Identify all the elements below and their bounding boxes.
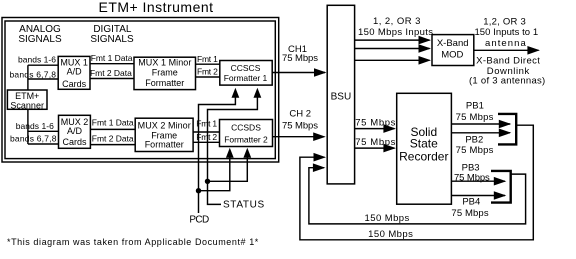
wire scanner bottom vertical [27, 109, 29, 144]
wire PB3 [451, 180, 505, 182]
svg-text:1, 2, OR 3: 1, 2, OR 3 [373, 16, 421, 27]
arrowhead up STATUS into formatter 1 [254, 88, 262, 98]
arrowhead return A into BSU [313, 163, 326, 172]
svg-text:bands 6,7,8: bands 6,7,8 [10, 134, 57, 144]
wire STATUS net: stem under formatter1 arrow2, run left, down [208, 92, 258, 204]
arrowhead PB1 [499, 120, 512, 129]
svg-text:150 Mbps: 150 Mbps [368, 229, 413, 240]
svg-text:PB4: PB4 [462, 196, 480, 207]
svg-text:CH 2: CH 2 [289, 108, 311, 119]
arrowhead up PCD into formatter 2 [226, 148, 234, 158]
wire PCD branch to formatter2 arrow [199, 152, 230, 191]
svg-text:Fmt 1 Data: Fmt 1 Data [91, 53, 133, 63]
svg-text:Frame: Frame [152, 68, 178, 78]
svg-text:Formatter: Formatter [145, 78, 184, 88]
svg-text:MUX 2 Minor: MUX 2 Minor [138, 120, 191, 130]
wire Fmt 1 Data (upper) [90, 63, 134, 65]
svg-text:A/D: A/D [67, 126, 83, 136]
svg-text:75 Mbps: 75 Mbps [355, 137, 395, 148]
wire X-Band MOD output [474, 49, 539, 51]
svg-text:MUX 1 Minor: MUX 1 Minor [138, 58, 191, 68]
box X-Band MOD [432, 35, 474, 66]
wire bands 6,7,8 (lower) [28, 143, 59, 145]
wire STATUS branch to formatter2 arrow2 [208, 152, 248, 181]
junction dot STATUS [205, 179, 210, 184]
svg-text:Formatter 1: Formatter 1 [224, 73, 268, 83]
svg-text:75 Mbps: 75 Mbps [454, 172, 490, 183]
arrowhead return B into BSU [314, 153, 327, 162]
wire 150 Mbps return loop B (PB1/PB2 to BSU) [300, 125, 533, 240]
junction dot PCD [196, 188, 201, 193]
wire CH1 75 Mbps [272, 72, 325, 74]
svg-text:CCSCS: CCSCS [231, 63, 261, 73]
box MUX 1 A/D Cards [58, 56, 90, 89]
arrowhead PB2 [499, 129, 512, 138]
wire PB4 [451, 195, 505, 197]
wire Fmt 1 (lower) [193, 131, 219, 133]
box CCSCS Formatter 1 [220, 61, 272, 86]
svg-text:75 Mbps: 75 Mbps [456, 145, 494, 156]
box CCSDS Formatter 2 [220, 120, 273, 147]
svg-text:CCSDS: CCSDS [231, 123, 261, 133]
wire Fmt 2 (upper) [196, 76, 220, 78]
wire PB1 [451, 123, 510, 125]
svg-text:Fmt 1: Fmt 1 [197, 54, 218, 64]
box Solid State Recorder [397, 93, 452, 204]
svg-text:Cards: Cards [62, 137, 87, 147]
arrowhead PB3 [494, 177, 507, 186]
svg-text:75 Mbps: 75 Mbps [456, 112, 494, 123]
svg-text:150 Mbps: 150 Mbps [365, 213, 410, 224]
wire bands 6,7,8 (upper) [28, 78, 58, 80]
svg-text:75 Mbps: 75 Mbps [355, 117, 395, 128]
svg-text:Fmt 1: Fmt 1 [196, 118, 217, 128]
wire Fmt 1 (upper) [196, 63, 220, 65]
wire Fmt 2 Data (upper) [90, 78, 134, 80]
svg-text:150 Inputs to 1: 150 Inputs to 1 [474, 27, 538, 38]
wire BSU to X-Band MOD 3 [355, 59, 430, 61]
svg-text:Fmt 1 Data: Fmt 1 Data [92, 118, 134, 128]
arrowhead up STATUS into formatter 2 [243, 148, 251, 158]
arrowhead up PCD into formatter 1 [232, 88, 240, 98]
svg-text:150 Mbps Inputs: 150 Mbps Inputs [358, 27, 433, 38]
bracket joining PB1/PB2 [498, 114, 516, 144]
svg-text:Fmt 2 Data: Fmt 2 Data [90, 68, 132, 78]
box BSU [327, 5, 354, 184]
wire PCD net: stem under formatter1 arrow, run left, down to PCD [199, 92, 236, 213]
svg-text:SIGNALS: SIGNALS [18, 34, 62, 45]
svg-text:ETM+ Instrument: ETM+ Instrument [99, 0, 214, 15]
svg-text:PCD: PCD [189, 215, 209, 226]
arrowhead BSU-MOD 2 [419, 44, 432, 53]
svg-text:A/D: A/D [67, 67, 83, 77]
svg-text:bands 1-6: bands 1-6 [18, 55, 56, 65]
svg-text:Formatter: Formatter [145, 140, 184, 150]
ETM+ Instrument outer border (double) [2, 18, 279, 163]
wire BSU to SSR 75 Mbps 2 [355, 147, 395, 149]
svg-text:SIGNALS: SIGNALS [90, 34, 134, 45]
arrowhead BSU-MOD 1 [419, 36, 432, 45]
svg-text:Cards: Cards [62, 79, 87, 89]
svg-text:PB2: PB2 [465, 134, 483, 145]
wire BSU to SSR 75 Mbps 1 [355, 128, 395, 130]
arrowhead CH1 into BSU [314, 68, 327, 77]
wire CH2 75 Mbps [273, 136, 325, 138]
wire Fmt 2 (lower) [193, 141, 219, 143]
wire bands 1-6 (upper) [28, 64, 58, 66]
arrowhead PB4 [494, 191, 507, 200]
svg-text:Fmt 2: Fmt 2 [197, 66, 218, 76]
wire BSU to X-Band MOD 1 [355, 39, 430, 41]
svg-text:75 Mbps: 75 Mbps [451, 208, 488, 219]
svg-text:STATUS: STATUS [223, 200, 265, 211]
svg-text:PB1: PB1 [466, 101, 484, 112]
svg-text:(1 of 3 antennas): (1 of 3 antennas) [469, 76, 545, 87]
bracket joining PB3/PB4 [491, 171, 511, 203]
arrowhead BSU-MOD 3 [419, 56, 432, 65]
box MUX 2 A/D Cards [59, 115, 91, 148]
wire bands 1-6 (lower) [28, 130, 59, 132]
svg-text:X-Band Direct: X-Band Direct [476, 56, 540, 67]
svg-text:Fmt 2: Fmt 2 [196, 132, 217, 142]
svg-text:Recorder: Recorder [399, 149, 448, 163]
svg-text:Fmt 2 Data: Fmt 2 Data [92, 133, 134, 143]
box ETM+ Scanner [7, 90, 47, 109]
wire PB2 [451, 132, 510, 134]
svg-text:antenna: antenna [485, 38, 526, 49]
svg-text:75 Mbps: 75 Mbps [282, 121, 318, 132]
svg-text:*This diagram was taken from A: *This diagram was taken from Applicable … [7, 237, 259, 247]
wire scanner top vertical [27, 65, 29, 90]
svg-text:Scanner: Scanner [10, 100, 44, 110]
svg-text:75 Mbps: 75 Mbps [282, 53, 318, 64]
svg-text:MOD: MOD [441, 50, 463, 61]
box MUX 1 Minor Frame Formatter [134, 57, 196, 89]
svg-text:bands 1-6: bands 1-6 [16, 121, 54, 131]
arrowhead CH2 into BSU [313, 132, 326, 141]
svg-text:ETM+: ETM+ [15, 91, 39, 101]
svg-text:bands 6,7,8: bands 6,7,8 [10, 69, 57, 79]
arrowhead MOD output antenna [527, 46, 540, 55]
svg-text:X-Band: X-Band [437, 38, 469, 49]
wire Fmt 2 Data (lower) [90, 144, 135, 146]
wire BSU to X-Band MOD 2 [355, 48, 430, 50]
svg-text:Formatter 2: Formatter 2 [224, 135, 268, 145]
box MUX 2 Minor Frame Formatter [135, 118, 193, 151]
svg-text:BSU: BSU [331, 91, 352, 102]
arrowhead BSU-SSR 2 [383, 144, 396, 153]
wire Fmt 1 Data (lower) [90, 128, 135, 130]
arrowhead BSU-SSR 1 [383, 124, 396, 133]
wire 150 Mbps return loop A (PB3/PB4 to BSU) [309, 168, 526, 224]
svg-text:1,2, OR 3: 1,2, OR 3 [483, 17, 526, 28]
